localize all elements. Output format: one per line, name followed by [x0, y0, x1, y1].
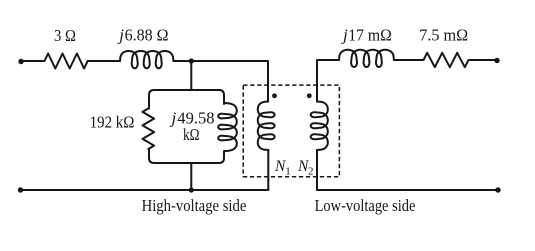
wire shunt feed: [190, 61, 192, 90]
junction node top: [189, 58, 194, 63]
inductor j6.88: [120, 51, 173, 68]
terminal dot bottom-left: [18, 187, 23, 192]
resistor 7.5m: [424, 53, 469, 67]
terminal dot bottom-right: [495, 187, 500, 192]
wire top-left rail: [21, 60, 45, 62]
svg-text:j: j: [117, 26, 124, 45]
wire N2 top: [317, 60, 339, 102]
svg-text:Low-voltage side: Low-voltage side: [315, 196, 416, 215]
wire N2 bottom: [316, 150, 318, 190]
wire: [88, 60, 120, 62]
polarity dot N1: [272, 93, 277, 98]
svg-text:High-voltage side: High-voltage side: [142, 196, 247, 215]
svg-text:192 kΩ: 192 kΩ: [90, 113, 135, 132]
svg-text:j: j: [341, 25, 348, 44]
svg-text:2: 2: [308, 166, 314, 178]
dashed ideal-transformer box: [243, 85, 339, 177]
resistor 192k: [143, 109, 155, 150]
wire box bottom feed: [190, 163, 192, 190]
svg-text:1: 1: [285, 166, 291, 178]
transformer winding N2: [311, 102, 328, 151]
wire: [394, 59, 424, 61]
wire bottom-right rail: [317, 189, 498, 191]
inductor j17m: [339, 50, 394, 67]
svg-text:kΩ: kΩ: [183, 125, 200, 144]
resistor R 3ohm: [45, 54, 88, 69]
terminal dot top-left: [18, 59, 23, 64]
wire to junction and to N1 top: [173, 61, 268, 102]
inductor j49.58k: [218, 103, 237, 151]
svg-text:j: j: [170, 108, 177, 127]
svg-text:6.88 Ω: 6.88 Ω: [125, 26, 169, 45]
wire bottom-left rail: [21, 189, 269, 191]
polarity dot N2: [307, 93, 312, 98]
wire to right terminal: [469, 59, 498, 61]
svg-text:7.5 mΩ: 7.5 mΩ: [419, 25, 468, 44]
terminal dot top-right: [494, 58, 499, 63]
transformer winding N1: [258, 102, 275, 151]
svg-text:3 Ω: 3 Ω: [54, 26, 76, 45]
junction node bottom: [189, 187, 194, 192]
wire N1 bottom: [267, 150, 269, 190]
parallel box outline: [149, 90, 224, 163]
svg-text:17 mΩ: 17 mΩ: [348, 25, 392, 44]
